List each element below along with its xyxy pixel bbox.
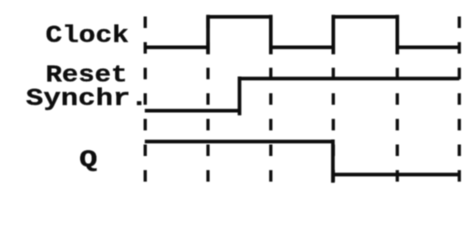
svg-text:Synchr.: Synchr. <box>26 85 148 112</box>
svg-text:Clock: Clock <box>46 22 129 50</box>
svg-text:Q: Q <box>79 147 97 175</box>
